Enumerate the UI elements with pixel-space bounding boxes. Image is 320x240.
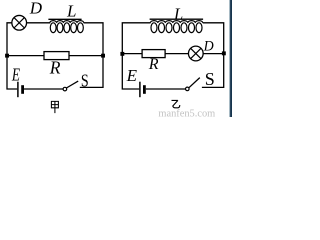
svg-text:E: E [126, 66, 138, 85]
battery E2 short plate [143, 85, 146, 94]
svg-text:L: L [66, 2, 76, 21]
wire: circuit-1 middle wire right part [69, 55, 104, 57]
svg-text:D: D [29, 0, 43, 18]
inductor L2 loop 4 [174, 23, 180, 33]
switch S1 blade [66, 81, 78, 88]
lamp D2 (circle) [188, 46, 203, 61]
node: circuit-1 right middle junction [101, 54, 105, 58]
lamp D1 (circle) [12, 15, 27, 30]
caption: character yi (circuit 2) [172, 100, 180, 107]
switch S2 pivot [186, 87, 190, 91]
wire: circuit-2 top-right segment, right vertical, switch contact wire [202, 23, 224, 88]
wire: circuit-1 bottom-left stub, left vertical and top-left segment [7, 23, 17, 89]
inductor L1 loop 5 [78, 23, 84, 33]
wire: circuit-2 middle wire left part [122, 53, 142, 55]
svg-text:manfen5.com: manfen5.com [158, 108, 215, 117]
inductor L1 loop 3 [64, 23, 70, 33]
wire: circuit-1 top-right segment, right vertical, switch contact wire [80, 23, 103, 88]
inductor L2 top scallops [150, 21, 203, 23]
inductor L2 iron core bar [150, 18, 204, 20]
inductor L1 loop 1 [50, 23, 56, 33]
node: circuit-1 left middle junction [5, 54, 9, 58]
inductor L2 loop 5 [181, 23, 187, 33]
svg-text:S: S [81, 72, 89, 91]
switch S1 pivot [63, 87, 67, 91]
wire: circuit-1 middle wire left part [7, 55, 45, 57]
svg-text:D: D [203, 38, 215, 55]
svg-text:R: R [148, 56, 159, 73]
svg-text:L: L [173, 4, 183, 23]
resistor R2 [142, 50, 165, 58]
inductor L1 iron core bar [48, 18, 81, 20]
inductor L2 loop 6 [189, 23, 195, 33]
switch S2 blade [189, 78, 200, 88]
node: circuit-2 left middle junction [120, 52, 124, 56]
wire: circuit-2 battery to switch pivot [146, 88, 186, 90]
inductor L2 loop 7 [196, 23, 202, 33]
lamp D1 cross stroke 1 [14, 18, 24, 28]
lamp D1 cross stroke 2 [14, 18, 24, 28]
inductor L2 loop 1 [151, 23, 157, 33]
inductor L1 loop 2 [57, 23, 63, 33]
inductor L1 top scallops [50, 21, 84, 23]
inductor L1 loop 4 [71, 23, 77, 33]
lamp D2 cross stroke 2 [191, 48, 201, 58]
lamp D2 cross stroke 1 [191, 48, 201, 58]
svg-text:R: R [49, 57, 61, 77]
decorative right border bar (dark) [230, 0, 232, 117]
wire: circuit-2 bottom-left stub, left vertical and top-left segment [122, 23, 150, 89]
caption: character jia (circuit 1) [51, 101, 58, 113]
wire: circuit-1 battery to switch pivot [24, 88, 63, 90]
wire: circuit-1 lamp to inductor [27, 22, 51, 24]
wire: circuit-2 middle wire right part [203, 53, 224, 55]
resistor R1 [44, 52, 69, 60]
wire: circuit-2 middle wire centre part [165, 53, 189, 55]
decorative right border bar [229, 0, 230, 117]
svg-text:E: E [11, 66, 20, 85]
inductor L2 loop 3 [166, 23, 172, 33]
node: circuit-2 right middle junction [222, 51, 226, 55]
battery E2 long plate [139, 82, 141, 98]
svg-text:S: S [205, 69, 215, 89]
battery E1 short plate [21, 85, 24, 94]
inductor L2 loop 2 [159, 23, 165, 33]
battery E1 long plate [17, 82, 19, 98]
